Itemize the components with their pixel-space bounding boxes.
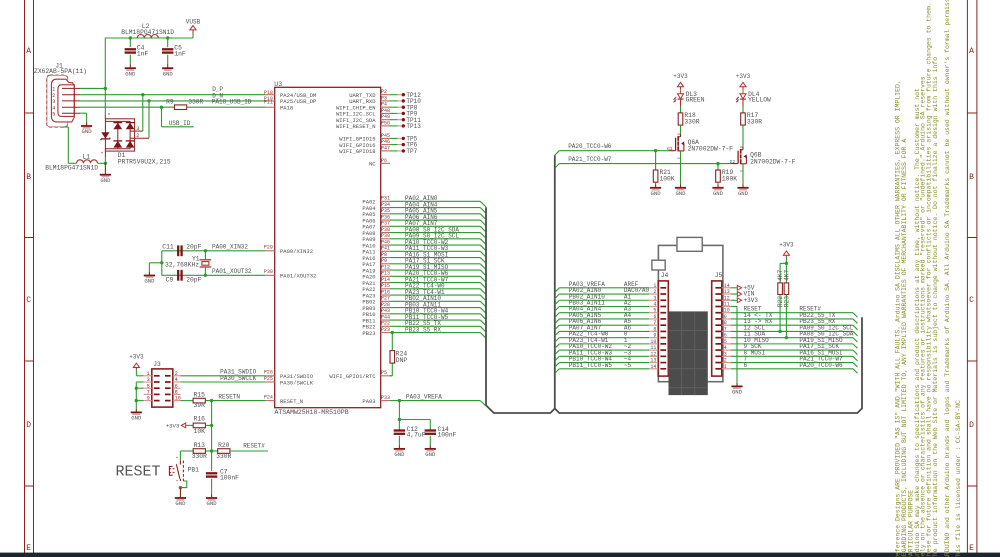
svg-text:P18: P18	[264, 90, 273, 96]
wire USB pin1 VBUS	[80, 87, 105, 89]
U3 pin P18 PA24/USB_DM	[266, 94, 275, 96]
wire PB1 to ground	[180, 481, 186, 488]
U3 pin P9 PA17	[381, 263, 390, 265]
svg-text:PB1: PB1	[188, 467, 200, 474]
wire net PA20_TCC0-W6	[390, 275, 480, 277]
svg-text:P28: P28	[381, 302, 390, 308]
U3 pin P33 PA03	[381, 400, 390, 402]
svg-text:PA00/XIN32: PA00/XIN32	[280, 248, 313, 255]
capacitor C5 1nF	[167, 38, 169, 47]
U3 pin P34 PA04	[381, 207, 390, 209]
junction R16	[210, 424, 213, 427]
wire net RESET#	[230, 450, 268, 452]
junction XIN at crystal	[204, 249, 207, 252]
svg-text:1: 1	[52, 87, 55, 93]
board USB footprint	[677, 237, 702, 251]
svg-text:WIFI_GPIO1/RTC: WIFI_GPIO1/RTC	[329, 373, 376, 380]
wire to testpoint TP5	[390, 137, 398, 139]
svg-text:32,768KHz: 32,768KHz	[165, 261, 199, 268]
wire net PA05_AIN5	[390, 213, 480, 215]
crystal Y1 32.768KHz	[204, 251, 206, 260]
svg-text:GND: GND	[713, 190, 724, 197]
svg-text:WIFI_GPIO18: WIFI_GPIO18	[339, 148, 375, 155]
svg-text:~5: ~5	[624, 362, 632, 369]
U3 pin P47 WIFI_GPIO18	[381, 150, 390, 152]
svg-text:G1: G1	[667, 146, 673, 152]
wire J4 pin 10 net PA23_TC4-W1	[555, 344, 560, 349]
svg-text:1: 1	[653, 283, 656, 289]
svg-text:2: 2	[52, 93, 55, 99]
U3 pin P31 PA02	[381, 200, 390, 202]
frame row divider ticks left	[25, 112, 34, 114]
junction R21	[654, 149, 657, 152]
J5 outside pin stubs	[722, 287, 731, 289]
svg-text:+3V3: +3V3	[744, 297, 759, 304]
svg-text:6: 6	[653, 314, 656, 320]
wire J4 pin 14 net PB11_TCC0-W5	[555, 369, 560, 374]
wire to testpoint TP6	[390, 144, 398, 146]
svg-text:PB23: PB23	[362, 330, 375, 337]
svg-text:BLM18PG471SN1D: BLM18PG471SN1D	[45, 165, 98, 172]
board module block	[669, 311, 708, 395]
ground below C5	[167, 64, 169, 68]
svg-text:GND: GND	[675, 190, 686, 197]
resistor R9 330R	[175, 105, 187, 110]
svg-text:B: B	[969, 173, 974, 182]
U3 pin P44 PB11	[381, 319, 390, 321]
wire net PA08_S0_I2C_SDA	[390, 232, 480, 234]
wire PA21_TCC0-W7	[555, 164, 560, 169]
frame left border lines	[24, 0, 26, 553]
wire net PA09_S0_I2C_SCL	[390, 238, 480, 240]
svg-text:6: 6	[744, 362, 748, 369]
svg-text:E: E	[26, 544, 31, 553]
svg-text:ZX62AB-5PA(11): ZX62AB-5PA(11)	[34, 68, 87, 75]
svg-text:P29: P29	[264, 244, 273, 250]
junction SCL pullup	[778, 330, 781, 333]
svg-text:3: 3	[136, 126, 139, 132]
svg-text:20pF: 20pF	[186, 277, 201, 284]
svg-text:GND: GND	[144, 278, 155, 285]
wire net PB03_AIN11	[390, 307, 480, 309]
wire +3V3 at J5	[731, 299, 737, 301]
testpoint TP11	[402, 118, 405, 121]
U3 pin P15 PA22	[381, 288, 390, 290]
wire J5 pin 8 net PB23_S5_RX	[731, 324, 853, 326]
svg-text:C9: C9	[166, 277, 174, 284]
svg-text:PA20_TCC0-W6: PA20_TCC0-W6	[799, 362, 843, 369]
wire VIN	[731, 293, 737, 295]
wire net PB23_S5_RX	[390, 332, 480, 334]
U3 pin P25 PA30/SWCLK	[266, 381, 275, 383]
svg-text:GND: GND	[394, 451, 405, 458]
svg-text:B: B	[26, 173, 31, 182]
capacitor C4 1nF	[129, 38, 131, 47]
wire J5 pin 2 net PA21_TCC0-W7	[731, 362, 853, 364]
svg-text:2: 2	[653, 289, 656, 295]
U3 pin P38 PA08	[381, 232, 390, 234]
wire PA03_VREFA	[390, 400, 480, 402]
wire net PB11_TCC0-W5	[390, 319, 480, 321]
D1 pin 2 stub	[130, 137, 149, 139]
svg-text:*: *	[176, 456, 179, 462]
inductor L1 BLM18PG471SN1D	[77, 160, 98, 163]
testpoint TP13	[402, 124, 405, 127]
wire J4 pin 6 net PA05_AIN5	[555, 319, 560, 324]
svg-text:A: A	[969, 47, 974, 56]
svg-text:P2: P2	[381, 89, 387, 95]
svg-text:J4: J4	[661, 272, 669, 279]
wire RESETN to U3	[205, 400, 265, 402]
junction J3 pin9 gnd	[135, 399, 138, 402]
svg-text:P13: P13	[381, 271, 390, 277]
resistor R20 330R	[212, 450, 218, 452]
U3 pin P36 PA06	[381, 219, 390, 221]
U3 pin P19 PA25/USB_DP	[266, 100, 275, 102]
svg-text:P46: P46	[381, 139, 390, 145]
svg-text:GND: GND	[175, 500, 186, 507]
LED DL3 GREEN	[678, 94, 684, 99]
wire PA20_TCC0-W6	[555, 151, 560, 156]
D1 zener diode	[101, 132, 109, 138]
svg-text:P50: P50	[381, 120, 390, 126]
testpoint TP7	[402, 149, 405, 152]
svg-text:330R: 330R	[216, 453, 231, 460]
svg-text:P47: P47	[381, 145, 390, 151]
wire D_N from USB pin3	[80, 100, 266, 102]
junction D_N	[147, 99, 150, 102]
svg-text:C: C	[969, 296, 974, 305]
svg-text:P49: P49	[381, 114, 390, 120]
junction on VUSB rail at C4	[129, 36, 132, 39]
junction I2C pullup feed	[785, 262, 788, 265]
svg-text:P25: P25	[264, 376, 273, 382]
U3 pin P24 RESET_N	[266, 400, 275, 402]
svg-text:P37: P37	[381, 221, 390, 227]
U3 pin P5 WIFI_GPIO1/RTC	[381, 375, 390, 377]
testpoint TP10	[402, 99, 405, 102]
svg-text:P44: P44	[381, 314, 390, 320]
wire J4 pin 1 net PA03_VREFA	[555, 288, 560, 293]
wire RESETN pull-up column	[211, 401, 213, 451]
wire net PB22_S5_TX	[390, 325, 480, 327]
svg-text:P8: P8	[381, 252, 387, 258]
U3 pin P16 PA23	[381, 294, 390, 296]
svg-text:330R: 330R	[188, 99, 203, 106]
transistor Q6B 2N7002DW-7-F	[731, 163, 738, 165]
wire net PA16_S1_MOSI	[390, 257, 480, 259]
svg-text:NC: NC	[369, 161, 376, 168]
svg-text:P16: P16	[381, 289, 390, 295]
wire net PA11_TCC0-W3	[390, 250, 480, 252]
svg-text:PRTR5V0U2X,215: PRTR5V0U2X,215	[118, 158, 171, 165]
ground below R21	[655, 184, 657, 188]
svg-text:+3V3: +3V3	[736, 73, 751, 80]
ground below C4	[129, 64, 131, 68]
D1 pin 3 stub	[130, 130, 143, 132]
svg-text:PA18_USB_ID: PA18_USB_ID	[212, 99, 252, 106]
svg-text:P40: P40	[381, 239, 390, 245]
svg-text:330R: 330R	[684, 119, 699, 126]
junction R13/R20/C7	[210, 449, 213, 452]
svg-text:C11: C11	[162, 243, 174, 250]
wire USB_ID from USB pin4	[80, 106, 174, 108]
wire J5 pin 1 net PA20_TCC0-W6	[731, 368, 853, 370]
U3 pin P48 WIFI_I2C_SCL	[381, 112, 390, 114]
svg-text:R20: R20	[218, 442, 230, 449]
svg-text:D: D	[677, 133, 681, 135]
wire D_N to D1 pin2	[148, 101, 150, 138]
svg-text:P6: P6	[381, 158, 387, 164]
svg-text:P48: P48	[381, 108, 390, 114]
wire to testpoint TP9	[390, 112, 398, 114]
svg-text:PA30/SWCLK: PA30/SWCLK	[280, 379, 314, 386]
wire to testpoint TP8	[390, 106, 398, 108]
D1 bottom pin	[104, 151, 106, 157]
svg-text:YELLOW: YELLOW	[748, 96, 771, 103]
svg-text:13: 13	[650, 358, 656, 364]
wire net PA21_TCC0-W7	[390, 282, 480, 284]
wire PA18_USB_ID to U3	[187, 106, 266, 108]
wire J4 pin 13 net PB10_TCC0-W4	[555, 363, 560, 368]
svg-text:R13: R13	[194, 442, 206, 449]
svg-text:This file is licensed under :: This file is licensed under : CC-SA-BY-N…	[955, 400, 962, 557]
svg-text:GND: GND	[651, 190, 662, 197]
svg-text:RESET_N: RESET_N	[280, 398, 303, 405]
U3 pin P40 PA10	[381, 244, 390, 246]
wire J5 pin 10 net RESET#	[731, 312, 853, 314]
wire J4 pin 11 net PA10_TCC0-W2	[555, 350, 560, 355]
svg-text:2N7002DW-7-F: 2N7002DW-7-F	[750, 158, 796, 165]
wire to C12/C14	[398, 401, 400, 420]
svg-text:BLM18PG471SN1D: BLM18PG471SN1D	[121, 29, 174, 36]
svg-text:D: D	[969, 421, 974, 430]
ground below J3	[135, 409, 137, 413]
svg-text:P23: P23	[381, 327, 390, 333]
wire J4 pin 8 net PA07_AIN7	[555, 331, 560, 336]
U3 pin P13 PA20	[381, 275, 390, 277]
svg-text:TP7: TP7	[406, 148, 417, 155]
resistor R16 10K	[193, 423, 205, 428]
junction R19	[716, 162, 719, 165]
ground below C14	[429, 445, 431, 449]
wire to testpoint TP12	[390, 94, 398, 96]
wire D_P from USB pin2	[80, 94, 266, 96]
svg-text:GND: GND	[131, 415, 142, 422]
ground at crystal	[148, 272, 150, 276]
svg-text:R16: R16	[194, 416, 206, 423]
frame bottom title-block edge	[0, 553, 1000, 557]
wire J5 pin 6 net PA08_S0_I2C_SDA	[731, 337, 853, 339]
resistor R22 4K7 pull-up SCL	[779, 263, 781, 283]
junction R24 at PB23 row	[391, 331, 394, 334]
U3 pin P37 PA07	[381, 225, 390, 227]
wire PA01_XOUT32	[162, 274, 266, 276]
wire J4 pin 12 net PA11_TCC0-W3	[555, 356, 560, 361]
U3 pin P2 UART_TXD	[381, 94, 390, 96]
svg-text:P12: P12	[381, 264, 390, 270]
junction at L1 / D1 ground node	[104, 162, 107, 165]
svg-text:*: *	[176, 479, 179, 485]
svg-text:100K: 100K	[722, 176, 737, 183]
svg-text:P14: P14	[381, 277, 390, 283]
svg-text:D: D	[739, 146, 743, 148]
svg-text:P11: P11	[264, 100, 273, 106]
resistor R19 100K	[717, 164, 719, 170]
svg-text:11: 11	[650, 345, 656, 351]
svg-text:GND: GND	[207, 500, 218, 507]
wire PA30_SWCLK	[181, 381, 266, 383]
svg-text:5: 5	[52, 111, 55, 117]
wire J4 pin 4 net PB03_AIN11	[555, 306, 560, 311]
wire net PA23_TC4-W1	[390, 294, 480, 296]
svg-text:ATSAMW25H18-MR510PB: ATSAMW25H18-MR510PB	[275, 409, 349, 416]
svg-text:100K: 100K	[660, 176, 675, 183]
wire +5V	[731, 287, 737, 289]
junction SDA pullup	[785, 336, 788, 339]
wire Q6A source to ground	[680, 151, 682, 184]
svg-text:G2: G2	[730, 159, 736, 165]
wire net PA06_AIN6	[390, 219, 480, 221]
svg-text:P5: P5	[381, 370, 387, 376]
wire net PA22_TC4-W0	[390, 288, 480, 290]
board outline drawing	[658, 245, 723, 381]
wire to testpoint TP13	[390, 125, 398, 127]
svg-text:39R: 39R	[194, 402, 206, 409]
svg-text:P41: P41	[381, 246, 390, 252]
testpoint TP12	[402, 93, 405, 96]
testpoint TP6	[402, 143, 405, 146]
junction PA03 decoupling	[398, 399, 401, 402]
svg-text:12: 12	[650, 351, 656, 357]
svg-text:P36: P36	[381, 214, 390, 220]
U3 pin P11 PA18	[266, 106, 275, 108]
wire PA00_XIN32	[162, 250, 266, 252]
wire net PA17_S1_SCK	[390, 263, 480, 265]
U3 pin P26 PA31/SWDIO	[266, 375, 275, 377]
svg-text:P26: P26	[264, 370, 273, 376]
svg-text:330R: 330R	[747, 119, 762, 126]
svg-text:RESET#: RESET#	[243, 443, 265, 450]
capacitor C7 100nF	[211, 451, 213, 471]
resistor R24 DNP	[390, 375, 392, 377]
svg-text:P43: P43	[381, 308, 390, 314]
svg-text:C: C	[26, 296, 31, 305]
svg-text:1nF: 1nF	[137, 51, 149, 58]
J1 pin lines	[62, 87, 80, 89]
svg-text:P4: P4	[381, 102, 387, 108]
LED DL4 YELLOW	[740, 94, 746, 99]
wire USB shield to L1	[62, 126, 68, 128]
svg-text:GREEN: GREEN	[686, 96, 705, 103]
testpoint TP5	[402, 137, 405, 140]
svg-text:+3V3: +3V3	[129, 354, 144, 361]
U3 pin P39 PA09	[381, 238, 390, 240]
wire J5 pin 3 net PA16_S1_MOSI	[731, 355, 853, 357]
svg-text:10K: 10K	[194, 428, 206, 435]
svg-text:P45: P45	[381, 133, 390, 139]
svg-text:330R: 330R	[192, 453, 207, 460]
wire J5 pin 5 net PA19_S1_MISO	[731, 343, 853, 345]
wire D_P to D1 pin3	[142, 95, 144, 131]
wire net PB02_AIN10	[390, 300, 480, 302]
wire net PA07_AIN7	[390, 225, 480, 227]
U3 pin P30 PA01/XOUT32	[266, 274, 275, 276]
wire J5 pin 9 net PB22_S5_TX	[731, 318, 853, 320]
wire J5 pin11 to ground	[731, 305, 737, 307]
wire to testpoint TP7	[390, 150, 398, 152]
svg-text:USB_ID: USB_ID	[169, 120, 191, 127]
U3 pin P4 WIFI_CHIP_EN	[381, 106, 390, 108]
svg-text:PA18: PA18	[280, 105, 293, 112]
ground below R19	[717, 184, 719, 188]
wire to testpoint TP11	[390, 119, 398, 121]
wire net PA19_S1_MISO	[390, 269, 480, 271]
U3 pin P27 PB02	[381, 300, 390, 302]
svg-text:GND: GND	[125, 70, 136, 77]
svg-text:DNP: DNP	[396, 357, 408, 364]
svg-text:J3: J3	[153, 361, 161, 368]
junction crystal ground tap	[160, 261, 163, 264]
svg-text:1nF: 1nF	[174, 51, 186, 58]
svg-text:R9: R9	[166, 99, 174, 106]
ground below Q6B	[742, 184, 744, 188]
svg-text:P27: P27	[381, 296, 390, 302]
resistor R18 330R	[678, 113, 683, 125]
U3 pin P45 WIFI_GPIO15	[381, 137, 390, 139]
svg-text:*: *	[100, 152, 103, 158]
capacitor C12 4,7uF	[398, 420, 400, 431]
svg-text:P3: P3	[381, 95, 387, 101]
svg-text:*: *	[107, 113, 110, 119]
svg-text:PA30_SWCLK: PA30_SWCLK	[220, 375, 256, 382]
svg-text:2: 2	[136, 133, 139, 139]
svg-text:J5: J5	[715, 272, 723, 279]
ground below Q6A	[680, 184, 682, 188]
svg-text:PA20_TCC0-W6: PA20_TCC0-W6	[568, 143, 612, 150]
svg-text:P38: P38	[381, 227, 390, 233]
svg-text:4,7uF: 4,7uF	[407, 432, 426, 439]
svg-text:PA01_XOUT32: PA01_XOUT32	[212, 268, 252, 275]
svg-text:9: 9	[653, 333, 656, 339]
svg-text:+3V3: +3V3	[673, 73, 688, 80]
svg-text:PA03: PA03	[362, 398, 375, 405]
transistor Q6A 2N7002DW-7-F	[669, 150, 676, 152]
resistor R13 330R	[180, 450, 193, 452]
wire net PA10_TCC0-W2	[390, 244, 480, 246]
wire net PA02_AIN0	[390, 200, 480, 202]
svg-text:WIFI_RESET_N: WIFI_RESET_N	[336, 123, 376, 130]
svg-text:L1: L1	[83, 154, 91, 161]
junction J3 pin5 gnd	[135, 387, 138, 390]
wire R18 to Q6A drain	[680, 125, 682, 134]
svg-text:GND: GND	[163, 70, 174, 77]
wire crystal left rail	[161, 251, 163, 275]
svg-text:PB11_TCC0-W5: PB11_TCC0-W5	[569, 362, 613, 369]
ground below C7	[211, 494, 213, 498]
ground below C12	[398, 445, 400, 449]
junction C12/C14	[398, 418, 401, 421]
svg-text:7: 7	[653, 320, 656, 326]
svg-text:GND: GND	[425, 451, 436, 458]
svg-text:P35: P35	[381, 208, 390, 214]
svg-text:P24: P24	[264, 394, 273, 400]
junction USB_ID	[160, 106, 163, 109]
svg-text:P34: P34	[381, 202, 390, 208]
bus branch to headers	[554, 155, 556, 408]
wire PA31_SWDIO	[181, 375, 266, 377]
svg-text:PA01/XOUT32: PA01/XOUT32	[280, 273, 316, 280]
